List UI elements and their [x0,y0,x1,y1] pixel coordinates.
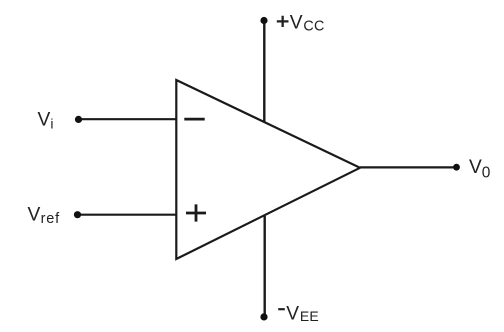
wire Vi input [79,118,177,120]
svg-text:V: V [469,157,482,178]
node +VCC terminal dot [260,17,267,24]
wire Vref input [78,214,177,216]
svg-text:V: V [290,13,303,34]
svg-text:CC: CC [303,19,324,35]
svg-text:V: V [286,303,299,324]
svg-text:V: V [28,204,41,225]
svg-text:V: V [38,109,51,130]
op-amp inverting input minus sign [184,118,204,121]
op-amp U1 [176,80,360,259]
label +VCC plus [277,16,289,27]
node V0 terminal dot [453,164,460,171]
svg-text:i: i [50,116,53,132]
node Vref terminal dot [74,211,81,218]
wire -VEE supply [264,216,266,317]
svg-text:ref: ref [41,211,60,227]
node -VEE terminal dot [260,313,267,320]
svg-text:EE: EE [300,308,319,324]
label -VEE minus [278,308,285,310]
wire +VCC supply [263,21,265,122]
svg-text:0: 0 [482,165,491,182]
op-amp non-inverting input plus sign [186,204,206,221]
wire output V0 [360,166,457,168]
node Vi terminal dot [75,116,82,123]
